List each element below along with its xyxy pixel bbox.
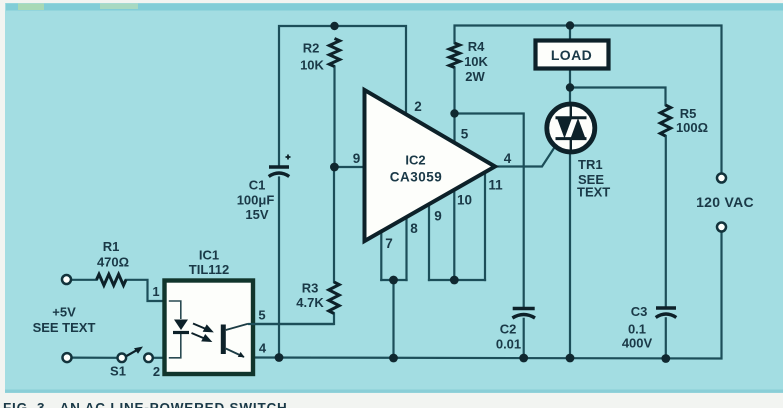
node rail C3 [661,354,670,363]
LED lead inside opto [169,301,181,358]
wire: node to R3 top [333,167,335,282]
svg-text:4: 4 [504,151,512,166]
svg-text:R5: R5 [680,106,697,121]
wire: triac bottom drop [569,139,571,358]
node LOAD top [566,21,574,29]
svg-text:IC2: IC2 [405,153,425,168]
svg-text:4.7K: 4.7K [296,295,324,310]
terminal 120VAC upper [717,174,726,183]
LOAD box [536,41,609,69]
svg-text:11: 11 [488,178,503,193]
svg-text:SEE TEXT: SEE TEXT [33,320,96,335]
svg-text:9: 9 [353,151,361,166]
svg-text:R3: R3 [302,281,319,296]
wire: bottom common rail [253,232,722,359]
node rail 7/8 [389,354,398,363]
svg-text:10: 10 [457,193,472,208]
svg-text:100μF: 100μF [237,193,275,208]
wire: R3 bottom jog to pin5 line [253,314,334,325]
IC2 CA3059 triangle [365,90,496,241]
svg-text:8: 8 [410,221,418,236]
resistor R5 100ohm [660,105,670,136]
wire: pin7-8 tie [381,279,406,281]
wire: +5V terminal to R1 [71,279,97,281]
node pin9-10-11 [450,276,459,285]
wire: pin 8 [405,217,407,280]
capacitor C1 100uF 15V [269,155,291,177]
svg-text:S1: S1 [110,364,126,379]
resistor R2 10K [329,39,339,67]
svg-text:TEXT: TEXT [577,185,610,200]
node R4 bottom pin5 [450,109,458,117]
node R2/R3 pin9 [330,163,339,172]
wire: R1 to opto pin1 [126,280,163,301]
svg-text:0.1: 0.1 [628,322,646,337]
wire: C1 lower lead [278,178,280,358]
wire: pin9-10-11 tie [429,279,485,281]
svg-text:R1: R1 [103,239,120,254]
wire: LOAD top drop [569,26,571,41]
terminal +5V upper [62,275,71,284]
node pin7-8 [389,276,398,285]
svg-text:C1: C1 [249,178,266,193]
svg-text:TIL112: TIL112 [189,262,229,277]
wire: pin 7 [380,231,382,280]
svg-text:470Ω: 470Ω [97,255,129,270]
node R2 top [330,22,338,30]
wire: pin 11 [484,172,486,280]
svg-text:2: 2 [153,364,160,379]
capacitor C3 0.1 400V [656,308,677,318]
wire: LOAD bottom to triac [569,69,571,117]
phototransistor of IC1 [221,325,226,355]
node rail C1 [275,353,284,362]
svg-text:9: 9 [434,209,442,224]
terminal +5V lower [63,353,72,362]
svg-text:2: 2 [414,99,422,114]
resistor R1 470ohm [97,274,127,285]
wire: pin 4 output to gate [495,139,560,167]
wire: pin 10 [453,190,455,280]
wire: DC top rail C1 to pin2 [279,26,406,166]
wire: lower terminal to S1 [72,357,118,359]
wire: 7/8 junction to rail [392,280,394,358]
wire: opto pin5 to R3 [248,323,334,325]
svg-text:C3: C3 [631,304,648,319]
capacitor C2 0.01 [512,309,535,319]
svg-text:R2: R2 [303,41,320,56]
LED diode of IC1 [174,320,188,331]
wire: pin 9 lead [334,166,366,168]
wire: S1 to opto pin2 [153,357,163,359]
svg-text:2W: 2W [465,69,485,84]
svg-text:1: 1 [152,284,159,299]
wire: gate path R4 node to C2 [455,114,524,308]
svg-text:IC1: IC1 [199,248,219,263]
triac TR1 [547,104,595,152]
wire: R2 bottom to node [333,67,335,168]
opto IC1 TIL112 box [165,281,254,375]
wire: R4 bottom to pin5 [453,68,455,114]
wire: snubber branch to R5 [570,88,666,106]
top darker scan band [6,4,783,11]
opto light arrows [192,324,212,341]
wire: pin 9b [428,204,430,280]
node rail C2 [519,354,528,363]
wire: R5 to C3 [665,136,667,307]
svg-text:7: 7 [385,236,393,251]
svg-text:15V: 15V [245,207,268,222]
wire: C2 lower lead [523,319,525,358]
svg-text:400V: 400V [622,336,653,351]
resistor R3 4.7K [329,282,339,314]
resistor R4 10K 2W [449,43,459,68]
switch S1 [118,354,127,363]
terminal 120VAC lower [717,223,726,232]
node LOAD bottom [566,83,574,91]
svg-text:CA3059: CA3059 [390,170,443,185]
svg-text:4: 4 [259,341,267,356]
svg-text:5: 5 [258,308,265,323]
svg-text:FIG. 3—AN AC LINE-POWERED SWIT: FIG. 3—AN AC LINE-POWERED SWITCH. [3,400,292,408]
svg-text:+5V: +5V [52,305,76,320]
wire: C3 to rail [665,318,667,358]
svg-text:120 VAC: 120 VAC [696,194,754,210]
svg-text:LOAD: LOAD [551,47,592,63]
node rail triac [566,354,575,363]
bottom darker scan edge [5,390,783,393]
svg-text:C2: C2 [500,322,517,337]
svg-text:TR1: TR1 [578,157,603,172]
svg-text:10K: 10K [464,54,488,69]
wire: AC top rail R4 to 120VAC [455,26,722,174]
svg-text:0.01: 0.01 [496,337,521,352]
svg-text:100Ω: 100Ω [676,120,708,135]
svg-text:10K: 10K [300,58,324,73]
svg-text:5: 5 [461,127,469,142]
svg-text:R4: R4 [468,39,485,54]
